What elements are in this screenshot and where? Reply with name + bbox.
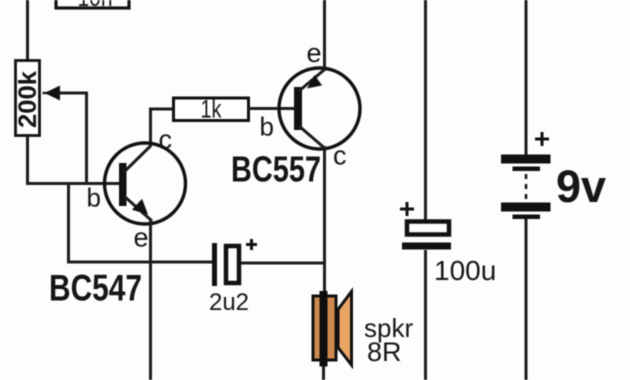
label C3 plus sign xyxy=(400,202,414,216)
label Q2 pin c xyxy=(333,141,347,171)
label Q1 pin c xyxy=(159,125,173,155)
transistor Q1 BC547 (NPN symbol) xyxy=(105,143,186,224)
label 9v value xyxy=(556,161,606,212)
wire 100u bottom to bottom rail xyxy=(424,250,427,380)
label 10n value (only glyph bottoms visible) xyxy=(78,0,113,12)
wire BC557 emitter up to top rail xyxy=(323,0,326,71)
label 2u2 value xyxy=(209,289,249,316)
label 200k value (rotated) xyxy=(14,71,42,128)
label 100u value xyxy=(434,255,496,286)
label Q2 pin e xyxy=(307,38,322,68)
svg-text:b: b xyxy=(87,183,101,213)
wire 1k to BC557 base xyxy=(248,107,296,110)
wire left rail top (to 200k top) xyxy=(26,0,29,61)
svg-text:BC547: BC547 xyxy=(49,268,142,309)
label 1k value xyxy=(201,96,222,124)
wire base node down to 2u2 left lead xyxy=(67,182,213,262)
wire BC547 collector up and right to 1k xyxy=(149,108,174,147)
svg-text:BC557: BC557 xyxy=(231,149,321,190)
wire battery top to top rail xyxy=(525,0,528,156)
svg-text:e: e xyxy=(307,38,322,68)
svg-text:c: c xyxy=(333,141,347,171)
label Q1 pin e xyxy=(134,223,149,253)
capacitor C3 100u (polarized plates) xyxy=(402,222,451,250)
svg-text:9v: 9v xyxy=(556,161,606,212)
svg-text:100u: 100u xyxy=(434,255,496,286)
label battery plus sign xyxy=(535,132,549,146)
label Q2 BC557 xyxy=(231,149,321,190)
capacitor C2 2u2 (polarized plates) xyxy=(212,243,239,286)
svg-text:e: e xyxy=(134,223,149,253)
resistor R1 body xyxy=(174,98,249,121)
wire speaker bottom to bottom rail xyxy=(322,366,325,380)
svg-text:10n: 10n xyxy=(78,0,113,12)
speaker LS1 (magnet, cone, pole bar) xyxy=(313,291,352,367)
wire BC547 emitter down to bottom rail xyxy=(149,221,152,380)
label C2 plus sign xyxy=(246,239,257,250)
wire 200k bottom to BC547 base xyxy=(26,134,122,184)
svg-text:200k: 200k xyxy=(14,71,42,128)
label spkr xyxy=(364,313,413,343)
wire battery bottom to bottom rail xyxy=(525,219,528,380)
svg-text:b: b xyxy=(260,112,274,142)
label 8R xyxy=(367,337,402,367)
label Q2 pin b xyxy=(260,112,274,142)
svg-text:c: c xyxy=(159,125,173,155)
capacitor C1 10n (box cut off at top edge) xyxy=(56,0,129,8)
transistor Q2 BC557 (PNP symbol) xyxy=(279,68,360,149)
label Q1 BC547 xyxy=(49,268,142,309)
wire 100u top to top rail xyxy=(424,0,427,221)
battery B1 (two cells with dashed link) xyxy=(501,155,551,220)
label Q1 pin b xyxy=(87,183,101,213)
potentiometer VR1 body xyxy=(16,61,40,136)
svg-text:8R: 8R xyxy=(367,337,402,367)
wire wiper drop to base node xyxy=(85,93,88,185)
wire BC557 collector down to speaker xyxy=(323,146,326,293)
wire 2u2 right lead to collector node xyxy=(241,262,326,265)
svg-text:2u2: 2u2 xyxy=(209,289,249,316)
svg-text:1k: 1k xyxy=(201,96,222,124)
potentiometer VR1 wiper arrow xyxy=(43,86,89,101)
